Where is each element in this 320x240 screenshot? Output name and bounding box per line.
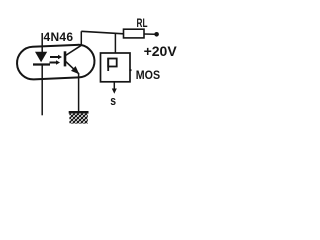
svg-text:RL: RL	[137, 16, 148, 30]
svg-text:s: s	[110, 94, 116, 108]
svg-text:+20V: +20V	[144, 43, 178, 59]
svg-text:4N46: 4N46	[44, 30, 74, 44]
svg-text:MOS: MOS	[136, 68, 160, 82]
